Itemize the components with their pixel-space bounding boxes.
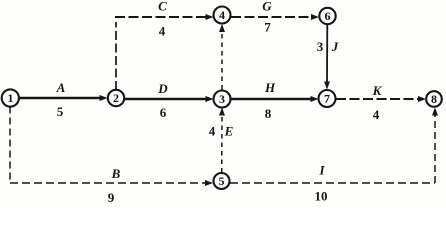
svg-text:K: K (372, 83, 383, 98)
svg-text:3: 3 (317, 39, 324, 54)
svg-text:4: 4 (159, 24, 166, 39)
svg-text:5: 5 (57, 104, 64, 119)
svg-text:8: 8 (431, 92, 437, 106)
svg-text:8: 8 (265, 106, 272, 121)
svg-text:10: 10 (315, 189, 328, 204)
svg-text:E: E (224, 124, 234, 139)
svg-text:3: 3 (219, 92, 225, 106)
svg-text:1: 1 (8, 91, 14, 105)
svg-text:4: 4 (219, 8, 225, 22)
svg-text:G: G (262, 0, 272, 14)
svg-text:2: 2 (113, 91, 119, 105)
svg-text:J: J (331, 39, 339, 54)
svg-text:C: C (158, 0, 167, 14)
svg-text:5: 5 (219, 174, 225, 188)
svg-text:I: I (318, 163, 325, 178)
svg-text:H: H (264, 80, 276, 95)
svg-text:6: 6 (160, 105, 167, 120)
svg-text:7: 7 (324, 92, 330, 106)
svg-text:4: 4 (209, 124, 216, 139)
svg-text:9: 9 (108, 190, 115, 205)
svg-text:4: 4 (373, 107, 380, 122)
svg-text:6: 6 (325, 9, 331, 23)
svg-text:A: A (56, 80, 66, 95)
svg-text:7: 7 (264, 20, 271, 35)
svg-text:D: D (157, 81, 168, 96)
svg-text:B: B (111, 166, 121, 181)
